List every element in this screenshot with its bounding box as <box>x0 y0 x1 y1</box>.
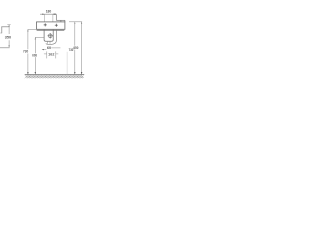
right tap hole <box>55 24 58 27</box>
text 730 right <box>69 48 74 52</box>
leader 60 right tail <box>51 47 60 49</box>
350 top tick <box>7 24 10 26</box>
floor crosshatch <box>25 75 84 78</box>
arrow 730 right floor <box>81 72 83 74</box>
extension line right hole <box>52 14 54 22</box>
drain stub left edge <box>46 42 48 44</box>
dimension line 730 lower <box>27 54 29 75</box>
left view bottom datum line <box>0 47 10 49</box>
drain stub right edge <box>49 42 51 44</box>
dimension line 730 upper <box>27 29 29 49</box>
arrow 180 left <box>42 14 44 15</box>
svg-text:730: 730 <box>23 50 28 54</box>
inlet right edge <box>60 20 62 22</box>
dimension line 350 upper <box>8 25 10 34</box>
svg-text:60: 60 <box>47 46 51 50</box>
dim line 180 right end blob <box>53 13 56 15</box>
rim level extension tick right <box>69 21 82 23</box>
svg-text:608: 608 <box>32 54 37 58</box>
bowl outer right shell <box>46 30 57 44</box>
rim right edge upper stub <box>64 20 66 22</box>
drain cross arms <box>48 33 53 38</box>
left tap hole <box>44 23 47 26</box>
dimension 162 outside dashes <box>44 53 58 55</box>
dimension line 350 lower <box>8 40 10 47</box>
bowl inner outline <box>44 30 53 42</box>
left view leg foot tick <box>0 32 2 34</box>
faint line under 730 text <box>66 52 68 74</box>
dimension line 608 lower <box>34 57 36 74</box>
svg-text:850: 850 <box>73 46 78 50</box>
left view top line <box>1 26 9 28</box>
leader 60 left arrow <box>42 49 46 51</box>
left view front leg <box>1 27 3 33</box>
dimension 162 right bar <box>55 51 57 58</box>
svg-text:350: 350 <box>5 35 11 39</box>
text 850 right <box>73 46 78 50</box>
svg-text:162: 162 <box>48 53 54 57</box>
extension line left hole <box>44 14 46 22</box>
front view rim block <box>37 22 65 29</box>
dimension line 850 <box>74 22 76 75</box>
extension rim bottom to 730 <box>28 28 37 30</box>
arrow 850 floor <box>74 72 76 74</box>
arrow 180 right <box>53 14 55 15</box>
dimension line 180 <box>40 13 56 15</box>
extension overflow to 608 <box>35 36 44 38</box>
inlet shoulder horizontal / top lip <box>56 19 65 21</box>
dimension line 608 upper <box>34 37 36 53</box>
dimension 162 left bar <box>46 51 48 58</box>
dimension line 730 right <box>81 22 83 75</box>
arrow 350 <box>8 45 9 47</box>
svg-text:180: 180 <box>46 9 52 13</box>
arrow 608 floor <box>35 72 37 74</box>
inlet pipe vertical <box>55 14 57 20</box>
floor line <box>25 74 84 76</box>
rim bottom thick line <box>37 29 65 31</box>
arrow 730 floor <box>27 72 29 74</box>
drain cross circle <box>48 34 52 38</box>
